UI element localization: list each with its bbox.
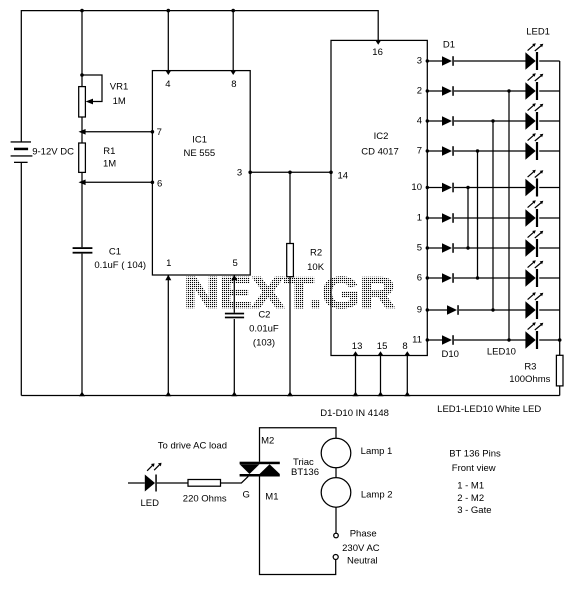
- svg-text:NE 555: NE 555: [183, 148, 215, 159]
- node C1 ground junction: [79, 392, 85, 397]
- wire diode D6 cathode to LED6: [454, 217, 526, 219]
- svg-text:Lamp 2: Lamp 2: [361, 490, 393, 501]
- svg-text:5: 5: [417, 243, 422, 254]
- counter IC2 CD4017: [331, 40, 427, 355]
- svg-text:To drive AC load: To drive AC load: [158, 440, 227, 451]
- svg-text:BT136: BT136: [291, 467, 319, 478]
- diode D9: [447, 305, 459, 315]
- svg-text:230V AC: 230V AC: [342, 543, 380, 554]
- svg-text:C1: C1: [109, 246, 121, 257]
- svg-text:14: 14: [338, 170, 349, 181]
- wire pairing Q3-Q7: [476, 149, 479, 279]
- LED indicator: [128, 463, 162, 509]
- svg-text:D1-D10 IN 4148: D1-D10 IN 4148: [320, 408, 389, 419]
- svg-text:D10: D10: [441, 349, 458, 360]
- wire diode D1 cathode to LED1: [454, 60, 526, 62]
- LED5: [525, 170, 543, 197]
- wire LED2 cathode to rail: [539, 90, 560, 92]
- svg-text:LED1-LED10 White LED: LED1-LED10 White LED: [437, 404, 541, 415]
- svg-text:7: 7: [417, 146, 422, 157]
- svg-text:4: 4: [417, 116, 422, 127]
- wire IC2 output Q4 (pin 10) row 5: [411, 182, 442, 193]
- wire pairing Q4-Q6: [466, 186, 469, 250]
- wire LED1 cathode to rail: [539, 60, 560, 62]
- label D1-D10 IN 4148: [320, 408, 389, 419]
- svg-text:LED10: LED10: [487, 347, 516, 358]
- svg-text:16: 16: [372, 47, 383, 58]
- svg-text:3: 3: [237, 168, 242, 179]
- svg-text:10K: 10K: [307, 262, 325, 273]
- label D1: [443, 40, 455, 51]
- LED6: [525, 200, 543, 227]
- svg-text:R2: R2: [310, 248, 322, 259]
- wire diode D9 cathode to LED9: [459, 309, 526, 311]
- svg-text:1M: 1M: [103, 159, 116, 170]
- wire pairing Q1-Q9: [507, 89, 510, 341]
- svg-text:8: 8: [231, 79, 236, 90]
- wire LED3 cathode to rail: [539, 120, 560, 122]
- resistor R2 10K: [287, 171, 325, 397]
- wire bottom ground rail: [21, 395, 559, 397]
- wire pairing Q2-Q8: [491, 119, 494, 311]
- capacitor C2 0.01uF: [225, 309, 279, 348]
- LED1: [525, 43, 543, 70]
- label To drive AC load: [158, 440, 227, 451]
- wire diode D4 cathode to LED4: [454, 150, 526, 152]
- node VR1 wiper tap: [80, 73, 84, 77]
- svg-text:8: 8: [402, 341, 407, 352]
- wire IC2 output Q0 (pin 3) row 1: [417, 56, 442, 67]
- diode D4: [442, 146, 454, 156]
- resistor R1 1M: [79, 143, 117, 172]
- wire IC2 output Q3 (pin 7) row 4: [417, 146, 442, 157]
- wire pin4 of IC1: [165, 9, 171, 75]
- svg-text:LED1: LED1: [526, 26, 550, 37]
- svg-text:6: 6: [157, 178, 162, 189]
- diode D1: [442, 56, 454, 66]
- svg-text:Lamp 1: Lamp 1: [361, 446, 393, 457]
- svg-text:2: 2: [417, 86, 422, 97]
- svg-text:Neutral: Neutral: [347, 556, 378, 567]
- wire LED7 cathode to rail: [539, 247, 560, 249]
- svg-text:R1: R1: [103, 146, 115, 157]
- svg-text:220 Ohms: 220 Ohms: [183, 494, 227, 505]
- svg-text:M1: M1: [265, 491, 278, 502]
- svg-text:4: 4: [165, 79, 170, 90]
- svg-text:M2: M2: [261, 435, 274, 446]
- wire diode D10 cathode to LED10: [454, 339, 526, 341]
- svg-text:6: 6: [417, 273, 422, 284]
- diode D10: [442, 335, 454, 345]
- terminal Neutral: [333, 555, 377, 567]
- wire LED8 cathode to rail: [539, 277, 560, 279]
- node VR1 top rail junction: [80, 9, 84, 13]
- svg-text:(103): (103): [253, 338, 275, 349]
- label 1 - M1: [457, 481, 484, 492]
- LED3: [525, 103, 543, 130]
- wire IC2 output Q5 (pin 1) row 6: [417, 213, 442, 224]
- svg-text:LED: LED: [140, 498, 159, 509]
- wire diode D7 cathode to LED7: [454, 247, 526, 249]
- svg-text:1 - M1: 1 - M1: [457, 481, 484, 492]
- svg-text:1: 1: [166, 258, 171, 269]
- LED9: [525, 292, 543, 319]
- svg-text:15: 15: [377, 341, 388, 352]
- wire LED4 cathode to rail: [539, 150, 560, 152]
- diode D2: [442, 86, 454, 96]
- wire pin5 IC1 to C2: [231, 275, 237, 397]
- wire IC2 output Q8 (pin 9) row 9: [417, 305, 447, 316]
- LED7: [525, 230, 543, 257]
- wire IC2 output Q9 (pin 11) row 10: [412, 335, 442, 346]
- resistor R3 100Ohms: [509, 355, 563, 395]
- wire IC2 output Q1 (pin 2) row 2: [417, 86, 442, 97]
- wire pin6 of IC1: [79, 180, 155, 186]
- svg-text:2 - M2: 2 - M2: [457, 493, 484, 504]
- wire pin7 of IC1: [79, 129, 155, 135]
- lamp Lamp 1: [321, 438, 392, 468]
- wire IC2 output Q6 (pin 5) row 7: [417, 243, 442, 254]
- wire lamp2 to phase terminal: [335, 507, 337, 533]
- svg-text:1M: 1M: [113, 96, 126, 107]
- svg-text:7: 7: [157, 127, 162, 138]
- wire pin8 of IC1: [230, 9, 236, 75]
- svg-text:9: 9: [417, 305, 422, 316]
- svg-text:100Ohms: 100Ohms: [509, 374, 550, 385]
- LED4: [525, 133, 543, 160]
- LED2: [525, 73, 543, 100]
- resistor 220 Ohms: [157, 476, 249, 504]
- svg-text:0.01uF: 0.01uF: [249, 323, 279, 334]
- wire pin8 IC2 to ground: [404, 351, 410, 396]
- svg-text:3: 3: [417, 56, 422, 67]
- diode D8: [442, 273, 454, 283]
- diode D6: [442, 213, 454, 223]
- op-amp/timer IC1 NE555: [152, 71, 250, 275]
- svg-text:BT 136 Pins: BT 136 Pins: [449, 449, 501, 460]
- wire diode D3 cathode to LED3: [454, 120, 526, 122]
- node pin16 junction: [375, 40, 381, 45]
- wire top supply rail: [21, 11, 378, 142]
- label LED1-LED10 White LED: [437, 404, 541, 415]
- label D10: [441, 349, 458, 360]
- diode D5: [442, 183, 454, 193]
- svg-text:0.1uF ( 104): 0.1uF ( 104): [94, 260, 146, 271]
- svg-text:10: 10: [411, 182, 422, 193]
- wire diode D8 cathode to LED8: [454, 277, 526, 279]
- svg-text:IC1: IC1: [192, 135, 207, 146]
- label 2 - M2: [457, 493, 484, 504]
- svg-text:5: 5: [233, 258, 238, 269]
- wire LED6 cathode to rail: [539, 217, 560, 219]
- svg-text:D1: D1: [443, 40, 455, 51]
- watermark NEXT.GR: [184, 269, 395, 318]
- svg-text:VR1: VR1: [110, 82, 128, 93]
- svg-text:3 - Gate: 3 - Gate: [457, 505, 491, 516]
- wire pin3 IC1 to pin14 IC2: [248, 171, 332, 175]
- svg-text:IC2: IC2: [374, 131, 389, 142]
- wire IC2 output Q7 (pin 6) row 8: [417, 273, 442, 284]
- potentiometer VR1 1M: [79, 75, 129, 117]
- wire M1 to neutral: [260, 477, 336, 575]
- triac BT136: [240, 435, 319, 502]
- label LED10: [487, 347, 516, 358]
- svg-text:G: G: [243, 489, 250, 500]
- label 3 - Gate: [457, 505, 491, 516]
- wire LED cathode rail: [558, 61, 562, 355]
- label Front view: [452, 463, 496, 474]
- wire pin13 IC2 to ground: [353, 351, 359, 396]
- LED8: [525, 260, 543, 287]
- svg-text:13: 13: [352, 341, 363, 352]
- terminal Phase: [334, 528, 377, 539]
- diode D3: [442, 116, 454, 126]
- lamp Lamp 2: [321, 478, 392, 508]
- wire battery negative to ground rail: [20, 163, 22, 396]
- label LED1: [526, 26, 550, 37]
- svg-text:Front view: Front view: [452, 463, 496, 474]
- diode D7: [442, 243, 454, 253]
- wire diode D2 cathode to LED2: [454, 90, 526, 92]
- wire between lamps: [335, 468, 337, 478]
- battery B1 9-12V DC: [11, 141, 74, 163]
- svg-text:Phase: Phase: [350, 528, 377, 539]
- wire LED10 cathode to rail: [539, 339, 560, 341]
- svg-text:C2: C2: [258, 309, 270, 320]
- wire diode D5 cathode to LED5: [454, 187, 526, 189]
- capacitor C1 0.1uF: [73, 246, 146, 270]
- LED10: [525, 322, 543, 349]
- label BT 136 Pins: [449, 449, 501, 460]
- svg-text:R3: R3: [524, 362, 536, 373]
- wire pin1 IC1 to ground: [165, 275, 171, 397]
- wire LED9 cathode to rail: [539, 309, 560, 311]
- svg-text:9-12V DC: 9-12V DC: [32, 147, 74, 158]
- wire M2 to lamps: [260, 428, 337, 462]
- wire IC2 output Q2 (pin 4) row 3: [417, 116, 442, 127]
- svg-text:1: 1: [417, 213, 422, 224]
- wire LED5 cathode to rail: [539, 187, 560, 189]
- label 230V AC: [342, 543, 380, 554]
- wire VR1 branch: [81, 11, 83, 396]
- wire pin15 IC2 to ground: [378, 351, 384, 396]
- svg-text:CD 4017: CD 4017: [361, 146, 399, 157]
- svg-text:11: 11: [412, 335, 422, 346]
